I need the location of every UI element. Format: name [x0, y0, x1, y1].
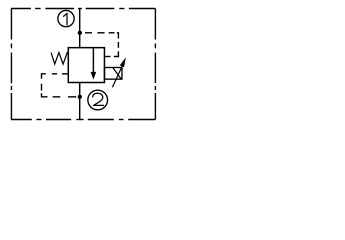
X falling diagonal in adjustment box	[113, 68, 121, 79]
adjustable arrow shaft	[112, 65, 122, 88]
adjustable arrow head	[120, 57, 126, 67]
wire: port 1 vertical line	[79, 9, 81, 48]
junction dot at port 2 pilot tap	[78, 95, 82, 99]
valve body box	[68, 48, 104, 83]
envelope right edge (chain line)	[154, 9, 156, 120]
envelope left edge (chain line)	[10, 9, 12, 120]
pilot line (dashed) from port 1 junction to adjustment, right side	[85, 33, 118, 57]
pilot line (dashed) from spring chamber to port 2 junction, left side	[42, 74, 77, 97]
spring W (left)	[51, 53, 68, 65]
envelope bottom edge (chain line)	[11, 119, 155, 121]
wire: port 2 vertical line	[79, 83, 81, 120]
junction dot at port 1 pilot tap	[78, 31, 82, 35]
internal flow line with arrow	[91, 48, 97, 80]
envelope top edge (chain line)	[11, 8, 155, 10]
port label circle 2	[88, 90, 108, 110]
adjustment spring box (right)	[104, 68, 122, 80]
port label circle 1	[58, 10, 74, 26]
